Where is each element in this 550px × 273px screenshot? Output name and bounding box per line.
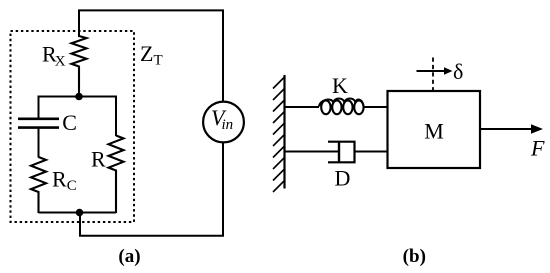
wire spring right	[363, 106, 388, 108]
resistor RC	[31, 157, 46, 213]
damper D piston	[338, 143, 340, 162]
svg-text:R: R	[91, 146, 106, 171]
capacitor C plate top	[18, 118, 59, 121]
wall line	[283, 75, 285, 189]
svg-text:F: F	[530, 135, 545, 160]
wire parallel top bus	[39, 97, 117, 137]
svg-text:C: C	[62, 110, 77, 135]
svg-text:(a): (a)	[118, 246, 140, 267]
svg-text:RX: RX	[42, 41, 66, 69]
arrow F head	[531, 124, 543, 133]
arrow F shaft	[480, 128, 533, 130]
spring K coil loop 3	[343, 100, 352, 114]
wall hatching	[273, 77, 285, 192]
resistor RX	[72, 36, 87, 97]
svg-text:δ: δ	[453, 59, 463, 84]
wire damper rod right	[355, 151, 389, 153]
svg-text:RC: RC	[52, 166, 77, 194]
wire damper rod left	[285, 151, 340, 153]
node junction bottom	[76, 209, 84, 217]
wire C to RC	[38, 128, 40, 158]
wire parallel bottom bus	[39, 212, 117, 214]
resistor R	[109, 136, 124, 214]
wire spring left	[285, 106, 320, 108]
wire top bus	[79, 10, 223, 102]
mass M box	[388, 91, 481, 168]
svg-text:K: K	[332, 73, 348, 98]
spring K coil loop 1	[321, 100, 330, 114]
spring K top arcs	[319, 98, 363, 106]
damper D cylinder	[328, 142, 355, 163]
node junction top	[75, 93, 83, 101]
spring K coil loop 4	[354, 100, 363, 114]
capacitor C plate bottom	[18, 126, 59, 129]
arrow delta head	[444, 67, 453, 75]
spring K coil loop 2	[332, 100, 341, 114]
svg-text:(b): (b)	[403, 246, 426, 267]
svg-text:D: D	[335, 165, 351, 190]
svg-text:ZT: ZT	[140, 41, 163, 69]
wire bottom bus	[80, 143, 223, 236]
arrow delta shaft	[417, 70, 446, 72]
impedance box ZT dashed	[11, 31, 135, 222]
dashed reference line	[432, 58, 434, 92]
source Vin circle	[203, 102, 244, 143]
svg-text:M: M	[424, 118, 444, 143]
